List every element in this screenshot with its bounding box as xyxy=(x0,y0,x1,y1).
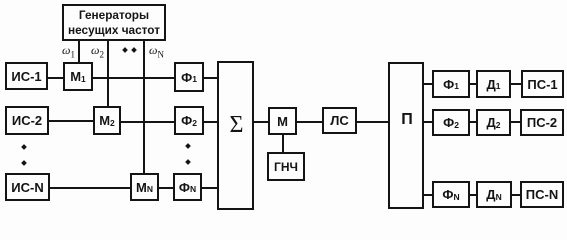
wire F1r to D1 xyxy=(470,83,476,85)
label omega1 xyxy=(62,43,75,58)
box GNCH xyxy=(267,152,305,181)
filter F2 right xyxy=(432,109,470,136)
detector D2 xyxy=(476,109,511,136)
receiver box P xyxy=(388,62,424,209)
detector D1 xyxy=(476,70,511,98)
label omega2 xyxy=(91,43,104,58)
box PS-N xyxy=(520,181,564,208)
label omegaN xyxy=(149,43,164,58)
ellipsis dots below IS-2 xyxy=(21,144,27,150)
box LS (line) xyxy=(322,107,357,134)
modulator M1 xyxy=(63,62,93,91)
modulator M xyxy=(268,107,297,135)
wire M to LS xyxy=(297,121,322,123)
ellipsis dots between F2 and FN xyxy=(185,143,191,149)
filter F2 left xyxy=(174,106,204,135)
wire FN to summator xyxy=(202,187,217,189)
wire DN to PS-N xyxy=(512,194,520,196)
wire LS to P xyxy=(357,121,388,123)
detector DN xyxy=(476,181,512,208)
wire MN to FN xyxy=(159,187,173,189)
wire F2 to summator xyxy=(204,121,217,123)
wire IS-2 to M2 xyxy=(49,120,93,122)
filter F1 left xyxy=(174,62,204,92)
wire FNr to DN xyxy=(470,194,476,196)
wire summator to M xyxy=(254,121,268,123)
modulator M2 xyxy=(93,106,121,135)
wire F1 to summator xyxy=(204,77,217,79)
wire D2 to PS-2 xyxy=(511,121,520,123)
wire M to GNCH vertical xyxy=(282,135,284,152)
modulator MN xyxy=(130,173,159,201)
wire M2 to F2 xyxy=(121,121,174,123)
filter FN left xyxy=(173,173,202,201)
box PS-2 xyxy=(520,109,564,136)
wire P to FN right xyxy=(424,194,432,196)
wire omegaN feed (generator to MN) xyxy=(143,40,145,174)
filter F1 right xyxy=(432,70,470,98)
wire M1 to F1 xyxy=(93,77,174,79)
box IS-2 xyxy=(5,106,49,135)
box IS-N xyxy=(5,173,50,201)
wire omega1 feed (generator to M1) xyxy=(78,40,80,63)
generator box "Генераторы несущих частот" xyxy=(62,4,166,41)
box PS-1 xyxy=(521,70,564,98)
wire D1 to PS-1 xyxy=(511,83,521,85)
wire omega2 feed (generator to M2) xyxy=(107,40,109,107)
box IS-1 xyxy=(5,62,48,90)
wire F2r to D2 xyxy=(470,121,476,123)
wire P to F1 right xyxy=(424,83,432,85)
wire IS-N to MN xyxy=(50,187,130,189)
summator box Sigma xyxy=(217,61,254,210)
ellipsis dots horizontal xyxy=(122,47,128,53)
wire IS-1 to M1 xyxy=(48,77,63,79)
wire P to F2 right xyxy=(424,121,432,123)
filter FN right xyxy=(432,181,470,208)
